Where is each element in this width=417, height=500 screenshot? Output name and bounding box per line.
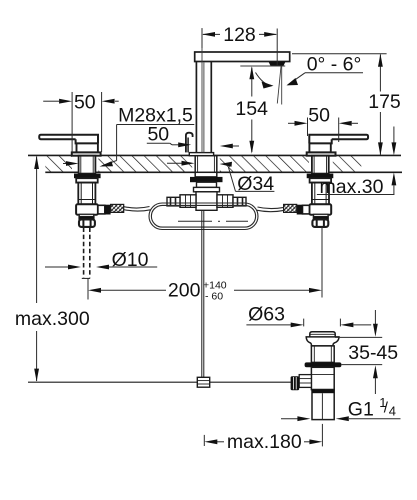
svg-text:Ø10: Ø10 xyxy=(112,249,149,271)
svg-text:154: 154 xyxy=(235,98,268,120)
svg-text:50: 50 xyxy=(308,105,330,127)
svg-text:35-45: 35-45 xyxy=(348,342,398,364)
svg-text:200: 200 xyxy=(168,280,201,302)
svg-text:max.300: max.300 xyxy=(15,308,90,330)
svg-text:G1: G1 xyxy=(348,399,374,421)
svg-text:50: 50 xyxy=(147,124,169,146)
svg-text:0° - 6°: 0° - 6° xyxy=(307,53,362,75)
svg-text:128: 128 xyxy=(223,24,256,46)
svg-text:Ø34: Ø34 xyxy=(237,173,274,195)
svg-text:175: 175 xyxy=(368,91,401,113)
svg-text:max.30: max.30 xyxy=(320,176,384,198)
svg-text:max.180: max.180 xyxy=(227,431,302,453)
svg-text:- 60: - 60 xyxy=(205,290,223,302)
svg-text:Ø63: Ø63 xyxy=(248,304,285,326)
svg-text:50: 50 xyxy=(74,91,96,113)
svg-text:4: 4 xyxy=(389,404,396,419)
